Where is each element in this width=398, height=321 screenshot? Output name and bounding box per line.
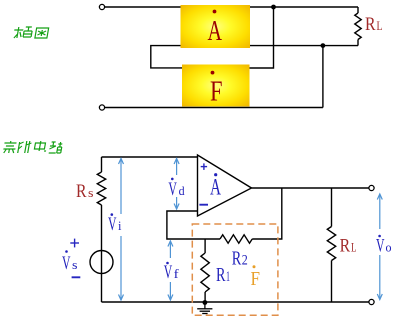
wire: A lower-left to F upper-left bracket	[151, 46, 182, 68]
block A box	[181, 5, 251, 48]
wire: junction down to F input (right)	[250, 7, 274, 68]
svg-text:V: V	[164, 262, 173, 283]
output terminal (bottom)	[369, 299, 374, 304]
Vo arrow	[377, 194, 382, 300]
block A label (A with dot)	[208, 10, 223, 48]
RL label (top)	[365, 14, 383, 35]
Vo label	[376, 235, 392, 257]
svg-text:s: s	[88, 185, 94, 200]
svg-text:V: V	[62, 253, 71, 274]
svg-text:V: V	[376, 236, 385, 257]
caption 实际电路 (actual circuit)	[3, 141, 63, 153]
svg-text:A: A	[208, 15, 223, 47]
Vi arrow (double headed)	[119, 159, 124, 301]
wire: Rs to source and source to bottom rail	[101, 205, 103, 302]
svg-text:R: R	[340, 236, 351, 257]
output terminal (top)	[369, 185, 374, 190]
feedback network dashed box	[192, 224, 278, 315]
Vf arrow	[168, 241, 173, 300]
wire: R2 right to output node	[252, 188, 282, 239]
wire: input terminal to block A	[105, 6, 181, 8]
svg-text:L: L	[351, 240, 357, 255]
op-amp gain label A (with dot)	[210, 173, 221, 199]
R1 label	[216, 264, 230, 286]
svg-text:L: L	[377, 18, 383, 33]
svg-text:F: F	[251, 268, 261, 290]
Vf label	[164, 262, 180, 283]
op-amp − input mark	[199, 204, 208, 206]
Vd label	[168, 178, 185, 201]
source Vs circle	[90, 251, 113, 274]
svg-text:F: F	[210, 75, 223, 107]
resistor Rs	[97, 172, 105, 205]
wire: junction down to bottom rail	[322, 46, 324, 108]
svg-text:f: f	[174, 266, 180, 281]
block F box	[182, 65, 250, 107]
wire: op-amp output to terminal	[252, 187, 369, 189]
Vs label	[62, 250, 78, 274]
node: junction on lower output wire	[321, 43, 326, 48]
svg-text:R: R	[76, 181, 87, 202]
svg-text:2: 2	[242, 253, 248, 269]
Vi label	[108, 213, 122, 235]
R2 label	[232, 248, 248, 270]
wire: bottom rail of block diagram	[105, 107, 323, 109]
svg-text:s: s	[72, 257, 78, 272]
resistor RL (load)	[327, 188, 335, 302]
svg-text:o: o	[386, 240, 392, 255]
svg-text:i: i	[118, 218, 122, 233]
node: junction at A output	[271, 5, 276, 10]
ground	[197, 303, 212, 314]
wire: A output top to RL	[250, 6, 358, 8]
svg-text:V: V	[168, 179, 177, 200]
resistor R2	[220, 235, 252, 243]
terminal (bottom-left)	[99, 105, 104, 110]
svg-text:R: R	[365, 14, 376, 35]
svg-text:1: 1	[226, 269, 230, 285]
Rs label	[76, 181, 94, 202]
caption 框图 (block diagram)	[13, 27, 49, 38]
Vd arrow	[174, 159, 179, 210]
wire: bottom rail	[102, 301, 369, 303]
svg-text:R: R	[216, 264, 226, 286]
RL label (load)	[340, 236, 357, 257]
resistor RL (top)	[355, 7, 361, 46]
input terminal (top-left)	[99, 4, 104, 9]
svg-text:R: R	[232, 248, 242, 270]
+ polarity mark	[70, 239, 79, 248]
− polarity mark	[72, 276, 81, 278]
op-amp + input mark	[201, 163, 207, 170]
op-amp triangle	[198, 155, 252, 216]
wire: A output bottom	[250, 45, 358, 47]
svg-text:V: V	[108, 214, 117, 235]
wire: top rail to op-amp + input	[102, 156, 198, 158]
F network label (orange, with dot)	[251, 265, 261, 290]
node: R1 to ground junction	[203, 300, 208, 305]
wire: left source branch	[101, 157, 103, 172]
wire: − input bracket to feedback node	[167, 211, 220, 239]
svg-text:A: A	[210, 175, 221, 200]
svg-text:d: d	[179, 183, 185, 198]
resistor R1	[201, 239, 209, 302]
block F label (F with dot)	[210, 71, 223, 108]
